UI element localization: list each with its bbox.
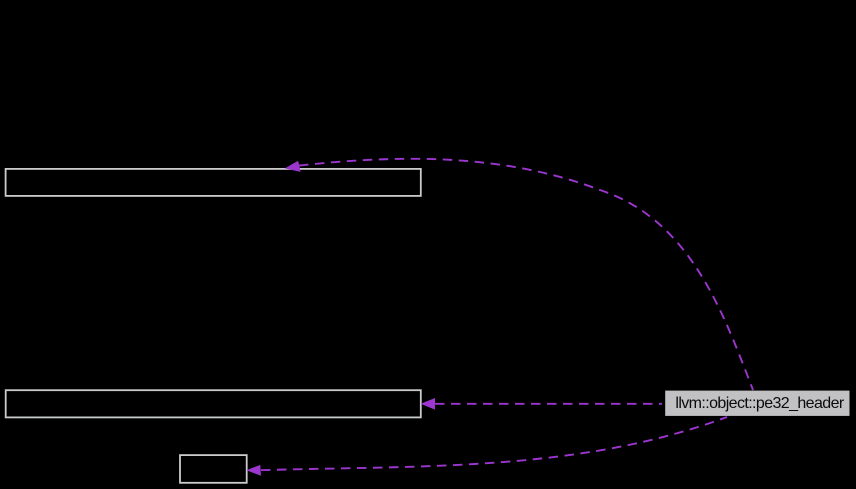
svg-text:llvm::object::pe32_header: llvm::object::pe32_header	[675, 395, 844, 412]
